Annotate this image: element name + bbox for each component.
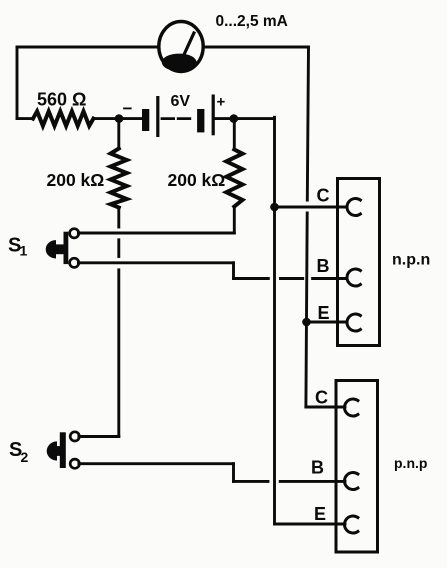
node: junction dot right (battery plus node) (230, 114, 239, 123)
ammeter M1 needle (184, 33, 194, 56)
pnp socket E (345, 516, 358, 533)
pnp socket B (345, 472, 358, 489)
wire S1 upper to resistor lead (78, 232, 234, 235)
switch S1 stub (55, 244, 65, 254)
wire S2 upper to left vertical (79, 435, 119, 438)
wire npn B lead (breaks at bus crossings) (234, 277, 269, 280)
battery plate thin 2 (212, 95, 215, 136)
resistor 200k left: top lead (117, 119, 120, 149)
svg-text:E: E (318, 303, 330, 323)
switch S1 actuator bar (64, 232, 69, 264)
wire S2 lower (79, 462, 234, 465)
wire jog down to npn B level (232, 263, 235, 279)
switch S2 actuator bar (60, 432, 66, 468)
wire top horizontal (meter to right corner) (203, 46, 309, 49)
wire: right resistor bottom lead down to S1 row (233, 207, 236, 234)
resistor 200k left zigzag (111, 149, 127, 208)
switch S1 lower contact (70, 258, 79, 267)
svg-text:200 kΩ: 200 kΩ (168, 170, 226, 190)
battery dashed link (162, 117, 192, 120)
pnp connector box (336, 381, 378, 553)
npn socket B (347, 269, 360, 286)
svg-text:B: B (311, 458, 324, 478)
resistor 200k right zigzag (226, 150, 242, 207)
wire npn E lead (307, 321, 348, 324)
resistor 200k right: top lead (233, 119, 236, 150)
wire: battery plus to bus A corner (215, 117, 275, 120)
battery plate thick 1 (142, 109, 149, 131)
node: junction dot bus B / npn E (302, 318, 311, 327)
wire jog down to pnp B level (232, 464, 235, 482)
svg-text:C: C (315, 388, 328, 408)
ammeter M1 body (159, 22, 203, 72)
svg-text:E: E (314, 504, 326, 524)
svg-text:B: B (317, 256, 330, 276)
svg-text:560 Ω: 560 Ω (37, 90, 86, 110)
npn socket C (347, 199, 360, 216)
node: junction dot left (battery minus node) (115, 114, 124, 123)
wire top-left vertical (16, 47, 19, 119)
wire top horizontal (left of meter) (17, 46, 159, 49)
pnp socket C (345, 399, 358, 416)
switch S2 knob (47, 441, 57, 460)
battery plate thin 1 (156, 96, 159, 137)
switch S2 stub (56, 446, 66, 456)
svg-text:0...2,5 mA: 0...2,5 mA (216, 13, 288, 30)
battery plate thick 2 (197, 109, 204, 132)
npn connector box (338, 179, 380, 346)
bus A vertical (battery plus rail) (273, 117, 276, 524)
svg-text:−: − (123, 99, 133, 118)
switch S1 upper contact (70, 229, 79, 238)
wire pnp C lead from bus B corner (306, 406, 345, 409)
wire: left row into resistor (17, 117, 33, 120)
switch S2 lower contact (70, 459, 79, 468)
resistor 560 ohm (33, 111, 93, 126)
switch S1 knob (46, 240, 56, 258)
svg-text:C: C (317, 186, 330, 206)
bus B vertical (meter rail, break at npn C crossing) (307, 47, 308, 200)
svg-text:200 kΩ: 200 kΩ (47, 170, 105, 190)
wire: left vertical below resistor (with breaks at S1 wires) (117, 208, 120, 228)
svg-text:+: + (217, 94, 226, 111)
wire pnp B lead (break at bus A) (234, 480, 269, 483)
svg-text:p.n.p: p.n.p (394, 455, 427, 471)
wire npn C lead (275, 206, 348, 209)
wire S1 lower (78, 261, 233, 264)
node: junction dot bus A / npn C (270, 203, 279, 212)
svg-text:1: 1 (20, 243, 28, 259)
svg-text:6V: 6V (171, 93, 191, 110)
wire: resistor to node (93, 117, 142, 120)
npn socket E (347, 314, 360, 331)
svg-text:2: 2 (21, 449, 29, 465)
wire pnp E lead from bus A corner (275, 523, 346, 526)
ammeter M1 black scale sector (162, 54, 197, 72)
svg-text:n.p.n: n.p.n (392, 252, 430, 269)
switch S2 upper contact (70, 432, 79, 441)
